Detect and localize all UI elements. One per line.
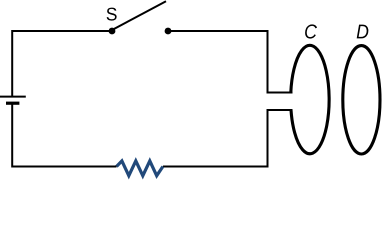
resistor R (blue zigzag) — [117, 161, 163, 176]
battery short plate (-) — [6, 102, 19, 105]
switch S contact dot left — [109, 28, 116, 35]
switch S label — [107, 8, 117, 21]
coil C (single loop with left gap) — [291, 45, 329, 153]
coil C label — [305, 24, 317, 38]
battery long plate (+) — [0, 96, 26, 98]
coil D label — [357, 25, 369, 39]
wire bottom-right segment from coil C lower stub — [163, 110, 293, 167]
wire top-left segment — [12, 31, 112, 97]
switch S blade — [113, 1, 167, 30]
wire top-right segment to coil C upper stub — [168, 31, 293, 93]
coil D (full ellipse) — [343, 46, 380, 154]
switch S contact dot right — [165, 28, 172, 35]
wire bottom-left segment — [12, 103, 116, 166]
